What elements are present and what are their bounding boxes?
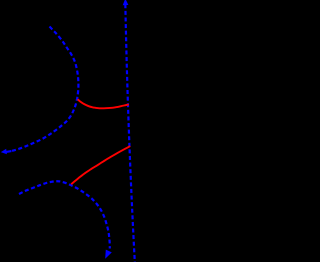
- arrowhead top of vertical line: [123, 0, 129, 5]
- red connector curve lower: [71, 146, 130, 184]
- trajectory arc lower-left (dashed blue): [19, 181, 110, 248]
- vertical dashed blue line: [125, 4, 134, 262]
- trajectory arc upper-left (dashed blue): [12, 27, 78, 151]
- red connector curve upper: [78, 99, 129, 108]
- shaft stub at left arrow: [6, 150, 11, 153]
- arrowhead bottom end of lower-left arc: [105, 250, 112, 259]
- arrowhead left end of upper-left arc: [1, 149, 7, 155]
